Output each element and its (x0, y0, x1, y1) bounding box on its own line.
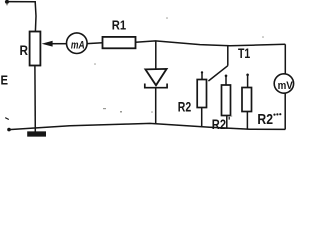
svg-text:R2: R2 (257, 111, 273, 128)
svg-text:mA: mA (71, 39, 85, 51)
svg-text:R: R (20, 43, 29, 58)
svg-text:R2: R2 (178, 100, 192, 115)
svg-text:T1: T1 (238, 45, 250, 61)
svg-text:R2: R2 (212, 117, 226, 132)
svg-text:mV: mV (278, 80, 294, 92)
svg-text:R1: R1 (112, 18, 126, 32)
svg-text:E: E (1, 73, 9, 88)
